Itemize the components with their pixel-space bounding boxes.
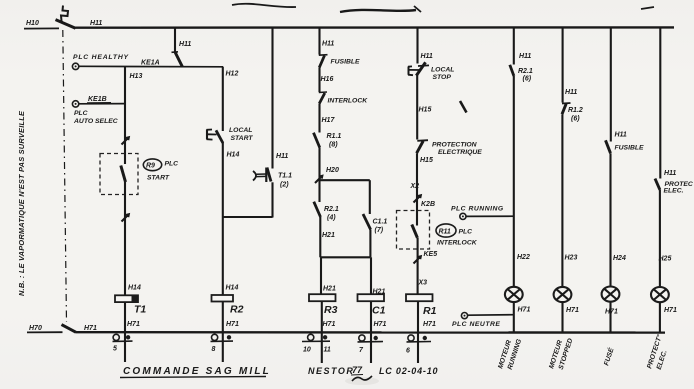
wire PLC RUNNING to H22 rung	[466, 215, 514, 217]
top rail H11	[75, 26, 674, 29]
stray pen mark	[460, 101, 467, 113]
svg-text:H71: H71	[518, 307, 531, 314]
lamp PROTECT ELEC	[651, 287, 677, 314]
wire H25	[659, 190, 672, 287]
contact FUSIBLE	[319, 55, 360, 68]
lamp MOTEUR RUNNING	[505, 287, 531, 314]
svg-text:H11: H11	[421, 53, 433, 60]
disconnect switch H10/H11	[56, 20, 76, 29]
svg-text:LOCAL: LOCAL	[431, 67, 454, 74]
svg-text:ELECTRIQUE: ELECTRIQUE	[438, 149, 482, 156]
svg-text:H10: H10	[26, 20, 39, 27]
svg-text:X3: X3	[418, 280, 428, 287]
title COMMANDE SAG MILL	[120, 366, 271, 378]
svg-text:LC 02-04-10: LC 02-04-10	[379, 366, 438, 376]
terminal PLC AUTO SELEC	[72, 101, 117, 125]
svg-text:10: 10	[303, 347, 311, 354]
contact INTERLOCK	[319, 92, 368, 105]
svg-text:FUSIBLE: FUSIBLE	[615, 145, 645, 152]
svg-text:H71: H71	[226, 321, 239, 328]
rung 5 wire from rail	[418, 28, 433, 64]
svg-text:ELEC.: ELEC.	[664, 188, 684, 195]
svg-text:H16: H16	[321, 76, 334, 83]
PLC contact box R9 START	[100, 154, 138, 195]
contact KE1A	[172, 28, 192, 68]
svg-text:H71: H71	[127, 321, 140, 328]
label MOTEUR STOPPED	[548, 338, 574, 371]
coil R1	[406, 294, 437, 317]
wire H20 branch to C1.1	[320, 179, 370, 181]
svg-text:H71: H71	[423, 321, 436, 328]
svg-text:H24: H24	[613, 255, 626, 262]
terminal 6	[406, 335, 431, 355]
svg-text:8: 8	[212, 346, 216, 353]
svg-text:H12: H12	[226, 71, 239, 78]
rung 3 wire from rail	[320, 28, 335, 55]
svg-text:(4): (4)	[327, 215, 336, 222]
svg-text:11: 11	[324, 347, 331, 354]
svg-text:R2: R2	[230, 304, 244, 316]
svg-text:H11: H11	[322, 41, 334, 48]
svg-text:H71: H71	[566, 307, 579, 314]
svg-text:KE1A: KE1A	[141, 60, 160, 67]
rung 9 wire from rail	[660, 28, 676, 179]
disconnect switch H70/H71	[62, 325, 76, 333]
svg-text:COMMANDE SAG MILL: COMMANDE SAG MILL	[123, 366, 271, 377]
svg-text:(6): (6)	[571, 116, 580, 123]
svg-text:(7): (7)	[375, 227, 384, 234]
wire to R3 coil	[321, 257, 336, 294]
wire T1.1 branch from rail	[273, 28, 289, 169]
svg-text:H14: H14	[227, 152, 240, 159]
svg-text:6: 6	[406, 348, 410, 355]
svg-text:H17: H17	[322, 117, 336, 124]
coil T1	[115, 285, 146, 316]
terminal 5	[113, 334, 133, 352]
svg-text:NESTOR: NESTOR	[308, 366, 354, 376]
svg-text:LOCAL: LOCAL	[229, 127, 252, 134]
svg-text:H11: H11	[276, 153, 288, 160]
signature NESTOR 77 date	[308, 365, 438, 381]
wire lamp2 to rail	[561, 302, 563, 332]
wire H10	[24, 27, 59, 29]
wire join rung2/T1.1	[223, 216, 273, 218]
note N.B. le vapormatique n'est pas surveillé	[17, 110, 26, 296]
terminal PLC RUNNING	[451, 206, 504, 220]
svg-text:PLC NEUTRE: PLC NEUTRE	[452, 321, 500, 328]
svg-text:H11: H11	[664, 170, 676, 177]
contact fusible (lamp)	[606, 140, 645, 153]
contact C1.1 (7)	[363, 214, 387, 234]
wire H24	[611, 153, 626, 286]
wire lamp4 to rail	[659, 302, 661, 332]
terminal 8	[211, 334, 234, 353]
rung 1 wire H13 down	[124, 66, 126, 164]
svg-text:5: 5	[113, 346, 117, 353]
wire H22	[514, 76, 530, 287]
svg-text:H25: H25	[659, 256, 672, 263]
svg-text:PROTECTION: PROTECTION	[432, 142, 478, 149]
svg-text:N.B. : LE VAPORMATIQUE N'EST P: N.B. : LE VAPORMATIQUE N'EST PAS SURVEIL…	[17, 110, 26, 296]
wire R3 to rail	[322, 301, 336, 363]
wire R1 to rail	[418, 301, 436, 363]
svg-text:H20: H20	[326, 167, 339, 174]
svg-text:STOP: STOP	[433, 74, 452, 81]
wire KE1B	[79, 96, 125, 104]
wire T1 to rail	[125, 302, 140, 362]
svg-text:H71: H71	[374, 321, 387, 328]
wire C1 to rail	[371, 301, 386, 363]
svg-text:H14: H14	[226, 285, 239, 292]
lamp FUSE	[602, 287, 620, 316]
svg-text:R2.1: R2.1	[518, 68, 533, 75]
svg-text:C1.1: C1.1	[373, 219, 388, 226]
svg-text:FUSIBLE: FUSIBLE	[331, 59, 361, 66]
rung 8 wire from rail	[611, 28, 627, 142]
svg-text:R1.2: R1.2	[568, 107, 583, 114]
contact R1.2 (6)	[562, 103, 583, 123]
svg-text:X2: X2	[410, 183, 420, 190]
svg-text:T1: T1	[134, 304, 146, 316]
svg-text:INTERLOCK: INTERLOCK	[328, 98, 369, 105]
svg-text:H11: H11	[615, 132, 627, 139]
wire C1.1 branch	[369, 180, 371, 214]
contact R2.1 (4)	[314, 202, 339, 222]
svg-text:H13: H13	[130, 73, 143, 80]
rung 7 wire from rail	[563, 28, 578, 103]
wire to C1 coil	[371, 257, 385, 295]
slash mark	[122, 137, 129, 144]
svg-text:PLC: PLC	[459, 229, 473, 236]
svg-text:PLC HEALTHY: PLC HEALTHY	[73, 54, 130, 61]
svg-text:R1.1: R1.1	[327, 133, 342, 140]
svg-text:H21: H21	[322, 232, 335, 239]
boundary dash-dot line	[63, 30, 67, 322]
wire H23	[562, 114, 577, 287]
wire join rung3/C1	[320, 256, 370, 258]
svg-text:(8): (8)	[329, 142, 338, 149]
svg-text:H23: H23	[565, 255, 578, 262]
wire H12	[223, 67, 239, 131]
wire KE1A / node H13	[79, 60, 223, 81]
svg-text:H11: H11	[519, 53, 531, 60]
bottom rail H71	[76, 331, 666, 334]
svg-text:R2.1: R2.1	[324, 206, 339, 213]
wire H15 / X2 / K2B	[410, 153, 436, 225]
coil R3	[309, 294, 338, 316]
wire / node H20	[315, 148, 339, 203]
pushbutton LOCAL START	[207, 127, 254, 143]
svg-text:H71: H71	[664, 307, 677, 314]
svg-text:R11: R11	[439, 229, 451, 236]
timed contact T1.1 (2)	[253, 168, 292, 189]
label MOTEUR RUNNING	[497, 338, 523, 371]
terminal 7	[358, 335, 384, 354]
svg-text:H15: H15	[419, 107, 432, 114]
svg-text:K2B: K2B	[421, 201, 435, 208]
rung 6 wire from rail	[514, 28, 532, 65]
svg-text:H15: H15	[420, 157, 433, 164]
wire below R9 box	[124, 182, 126, 295]
contact R1.1 (8)	[314, 133, 342, 149]
contact PROTECTION ELECTRIQUE	[417, 140, 483, 156]
wire R2 to rail	[223, 302, 239, 363]
svg-text:H71: H71	[323, 321, 336, 328]
break zigzag mark	[61, 6, 68, 24]
svg-text:H22: H22	[517, 254, 530, 261]
svg-text:C1: C1	[372, 305, 386, 317]
relay oval R9 PLC START	[143, 159, 178, 182]
coil R2	[212, 285, 244, 316]
wire H15	[417, 75, 431, 140]
wire H16	[320, 68, 334, 93]
svg-text:KE1B: KE1B	[88, 96, 107, 103]
PLC contact box K2B/KE5	[397, 211, 438, 264]
svg-text:START: START	[231, 135, 254, 142]
label PROTECT ELEC	[645, 333, 668, 370]
svg-text:START: START	[147, 175, 170, 182]
terminal 10 11	[302, 334, 331, 353]
svg-text:H11: H11	[565, 89, 577, 96]
terminal PLC HEALTHY	[72, 54, 129, 70]
contact R2.1 (6)	[510, 65, 533, 83]
slash mark	[122, 214, 129, 221]
svg-text:AUTO SELEC: AUTO SELEC	[73, 118, 118, 125]
svg-text:R3: R3	[324, 304, 338, 316]
pushbutton LOCAL STOP	[408, 62, 454, 81]
svg-text:PLC: PLC	[74, 110, 88, 117]
svg-text:H70: H70	[29, 325, 42, 332]
svg-text:H21: H21	[323, 286, 336, 293]
terminal PLC NEUTRE	[452, 313, 500, 329]
wire PLC NEUTRE to H22 rung	[468, 314, 514, 317]
wire below T1.1	[271, 182, 273, 217]
svg-text:T1.1: T1.1	[278, 173, 292, 180]
wire H14	[223, 143, 240, 296]
contact protection elec (lamp)	[655, 179, 693, 195]
svg-text:H14: H14	[128, 285, 141, 292]
svg-text:PLC RUNNING: PLC RUNNING	[451, 206, 504, 213]
wire below C1.1	[369, 230, 371, 258]
svg-text:R9: R9	[146, 163, 155, 170]
svg-text:INTERLOCK: INTERLOCK	[437, 240, 478, 247]
svg-text:77: 77	[352, 365, 363, 375]
bottom wire H70	[27, 331, 63, 333]
wire lamp3 to rail	[609, 302, 611, 333]
wire lamp1 to rail	[513, 302, 515, 333]
svg-text:R1: R1	[423, 305, 437, 317]
wire H21	[320, 217, 335, 257]
svg-text:(6): (6)	[523, 76, 532, 83]
svg-text:(2): (2)	[280, 182, 289, 189]
wire X3	[418, 238, 428, 295]
svg-text:PLC: PLC	[165, 161, 179, 168]
svg-text:H71: H71	[84, 325, 97, 332]
svg-text:KE5: KE5	[424, 251, 438, 258]
lamp MOTEUR STOPPED	[554, 287, 579, 314]
svg-text:H11: H11	[179, 41, 191, 48]
wire H17	[320, 104, 336, 133]
svg-text:H11: H11	[90, 20, 102, 27]
coil C1	[358, 294, 386, 316]
relay oval R11 PLC INTERLOCK	[436, 224, 478, 247]
